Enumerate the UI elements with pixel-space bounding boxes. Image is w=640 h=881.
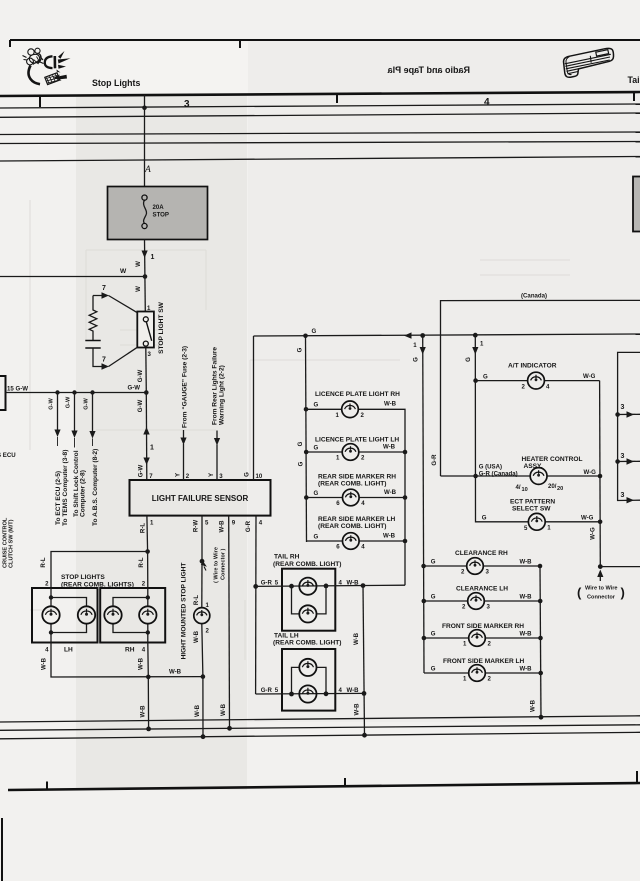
svg-text:HEATER CONTROL: HEATER CONTROL [522,456,583,463]
A/T indicator bulb [528,372,545,389]
svg-text:4: 4 [259,520,263,527]
svg-text:(REAR COMB. LIGHT): (REAR COMB. LIGHT) [318,523,387,530]
heater bulb [530,468,547,485]
node AT drop [473,333,478,338]
licence LH row wires [306,451,405,453]
node W branch [143,274,148,279]
right bus row 1 [618,413,640,415]
node marker LH right [403,539,408,544]
svg-text:G: G [243,472,250,477]
svg-text:20: 20 [557,486,563,492]
svg-text:W-G: W-G [583,373,596,380]
svg-text:W-B: W-B [383,533,396,540]
W-G connector up arrow [597,570,603,578]
W-G bus [599,381,602,567]
bottom tick x345 [344,778,346,786]
node B3 high mount [201,734,206,739]
background tone: header left [10,42,248,93]
W-G stub to edge [600,566,640,568]
ECT bulb [528,513,545,530]
svg-text:7: 7 [102,285,106,292]
switch blade [146,322,151,341]
svg-text:G: G [431,559,436,566]
tail RH inner wiring [292,586,327,614]
svg-text:G: G [314,490,319,497]
rear failure feed arrow [214,438,220,446]
bleed-through ghost marks [30,260,570,660]
dropper wire 1 [57,393,59,430]
stop light switch box [137,312,154,348]
tail RH node left [289,584,294,589]
clearance LH row [424,600,540,602]
RH bulb 1 [104,606,121,623]
node dropper 3 [90,390,94,394]
svg-text:Computer (2-8): Computer (2-8) [80,470,87,517]
node clearance drop [420,333,425,338]
svg-text:4: 4 [361,500,365,507]
node front LH right [538,671,543,676]
svg-text:( Wire to Wire: ( Wire to Wire [214,547,220,583]
svg-text:W-B: W-B [347,579,360,586]
switch contact bottom [143,341,148,346]
RH pin4 wire [147,643,150,729]
svg-text:STOP LIGHTS: STOP LIGHTS [61,574,105,581]
svg-text:3: 3 [184,99,190,110]
right row2 arrow [627,458,635,464]
LH bulb 2 [78,606,95,623]
svg-text:1: 1 [547,524,551,531]
svg-text:To TEMS Computer (3-8): To TEMS Computer (3-8) [62,450,69,526]
pin 4 wire down G-R bus [255,516,257,694]
svg-text:To ECT ECU (2-5): To ECT ECU (2-5) [55,471,62,525]
node clearance RH right [538,564,543,569]
svg-text:Wire to Wire: Wire to Wire [585,586,618,592]
svg-text:4: 4 [484,97,490,108]
frame top border line [10,40,640,48]
icon tail lamp assembly [564,48,614,77]
svg-text:Connector: Connector [587,595,616,601]
svg-text:20A: 20A [153,204,165,211]
svg-text:5: 5 [275,687,279,694]
high mount feed wire [201,561,203,607]
dropper arrow 3 [89,431,95,439]
tail RH node right [324,584,329,589]
svg-text:R-W: R-W [192,520,199,532]
svg-text:W-B: W-B [220,703,227,716]
svg-text:W-B: W-B [41,657,48,670]
svg-text:4/: 4/ [516,484,521,491]
AT row wires [476,380,600,382]
svg-text:S ECU: S ECU [0,452,16,459]
front LH bulb [469,665,486,682]
RH node top [146,595,150,599]
node bus RH [146,675,151,680]
svg-text:(Canada): (Canada) [521,293,547,300]
svg-text:G: G [314,401,319,408]
dropper arrow 1 [54,430,60,438]
front RH row [424,637,541,639]
svg-text:W-B: W-B [520,559,533,566]
svg-text:G: G [314,533,319,540]
svg-text:W-B: W-B [218,520,225,533]
svg-text:G-W: G-W [65,396,71,408]
svg-text:W: W [135,261,142,267]
svg-text:R-L: R-L [40,557,47,567]
svg-text:W-B: W-B [383,443,396,450]
stop lights top link wire [51,552,148,589]
marker LH row wires [307,540,406,542]
clearance drop arrow [420,347,426,355]
fuse 20A STOP symbol [142,195,147,229]
crossing wire L5 [0,132,640,135]
node AT row [473,378,478,383]
svg-text:G-R: G-R [245,520,252,532]
capacitor [85,341,100,349]
svg-text:W-B: W-B [140,705,147,718]
node heater G junction [473,474,478,479]
right fuse box (clipped at edge) [633,177,640,232]
svg-text:10: 10 [256,473,263,480]
tail RH row wire [256,585,405,586]
licence G bus [306,336,307,542]
licence RH bulb [342,401,359,418]
svg-text:STOP: STOP [153,212,169,219]
pin 10 wire from main G bus [253,336,255,480]
svg-text:1: 1 [150,445,154,452]
svg-text:ECT PATTERN: ECT PATTERN [510,498,555,505]
front RH bulb [469,630,486,647]
node marker RH right [403,495,408,500]
node right row2 [615,459,620,464]
tick x634 [633,92,635,101]
rc bottom link [93,347,137,366]
svg-text:G: G [483,373,488,380]
svg-text:HIGHT MOUNTED STOP LIGHT: HIGHT MOUNTED STOP LIGHT [180,563,187,660]
svg-text:Y: Y [208,473,215,477]
svg-text:W: W [135,286,142,292]
svg-text:G: G [297,441,304,446]
tail LH bulb top [299,659,316,676]
svg-text:G: G [431,594,436,601]
LH node top [49,595,53,599]
svg-text:7: 7 [102,357,106,364]
connector arrow down [143,458,149,466]
svg-text:9: 9 [232,520,236,527]
node licence LH left [304,450,309,455]
svg-text:LH: LH [64,647,73,654]
svg-text:From “GAUGE” Fuse (2-3): From “GAUGE” Fuse (2-3) [181,346,188,428]
rear failure feed wire to pin 3 [216,431,218,481]
front LH row [424,672,541,674]
gauge feed arrow [180,438,186,446]
node heater W-G [598,474,603,479]
svg-text:Tail: Tail [628,75,640,85]
wire to wire connector node on pin5 [200,559,205,564]
tail LH node left [289,692,294,697]
node B2 stop lights [146,727,151,732]
main G arrow left [404,332,412,338]
node licence RH left [304,407,309,412]
svg-text:G-R (Canada): G-R (Canada) [479,470,518,477]
node dropper 2 [72,390,76,394]
marker LH bulb [343,533,360,550]
svg-text:(REAR COMB. LIGHT): (REAR COMB. LIGHT) [273,561,342,568]
resistor [89,296,97,341]
svg-text:W-B: W-B [520,594,533,601]
ECT row wire [483,521,600,523]
bottom tick x637 [636,771,638,783]
wire fuse to switch [144,240,147,312]
svg-text:REAR SIDE MARKER RH: REAR SIDE MARKER RH [318,473,396,480]
icon stop light bulb cartoon [23,48,71,84]
svg-text:FRONT SIDE MARKER LH: FRONT SIDE MARKER LH [443,658,525,665]
svg-text:W-B: W-B [193,630,200,643]
dropper leader lines [58,437,93,448]
fuse box STOP [108,187,208,240]
wire to wire connector arrow [204,567,206,571]
bottom thick border line [8,783,640,790]
svg-text:REAR SIDE MARKER LH: REAR SIDE MARKER LH [318,516,396,523]
clearance RH bulb [467,558,484,575]
node front RH right [538,636,543,641]
svg-text:2: 2 [186,473,190,480]
bleed-through ghost lines [30,200,540,720]
svg-text:7: 7 [149,473,153,480]
heater row wire [441,475,601,477]
svg-text:G-R: G-R [261,579,273,586]
rc network top link [93,296,137,313]
crossing wire L4 [0,113,640,117]
svg-text:G: G [431,631,436,638]
right edge bus [618,352,640,500]
clearance RH row [424,565,540,567]
RH inner wiring [113,588,148,643]
LH inner wiring [51,588,87,643]
high mount wire down [202,624,203,737]
svg-text:1: 1 [151,254,155,261]
svg-text:6: 6 [336,544,340,551]
clearance LH bulb [468,593,485,610]
connector arrow up [143,427,149,435]
rc arrow bottom [102,363,110,369]
svg-text:W-B: W-B [529,699,536,712]
svg-text:CLUTCH SW (M/T): CLUTCH SW (M/T) [9,519,15,568]
right row3 arrow [627,497,635,503]
svg-text:G: G [312,328,317,335]
svg-text:To A.B.S. Computer (8-2): To A.B.S. Computer (8-2) [92,449,99,526]
node B3 tail bus [362,733,367,738]
svg-text:G: G [413,357,420,362]
wire fuse feed [144,95,146,187]
svg-text:20/: 20/ [548,483,557,490]
svg-text:STOP LIGHT SW: STOP LIGHT SW [158,301,165,354]
RH node bottom [146,630,150,634]
dropper wire 3 [92,393,94,432]
tail LH bulb bottom [299,685,316,702]
svg-text:W-B: W-B [520,631,533,638]
frame second border line with ticks [0,92,640,96]
pin 5 wire down [201,516,203,561]
svg-text:W-B: W-B [384,489,397,496]
svg-text:G: G [314,444,319,451]
node G-W bus main [144,390,149,395]
clearance G bus [423,336,424,674]
svg-text:3: 3 [621,404,625,411]
licence RH row wires [306,409,405,585]
node right row1 [615,412,620,417]
svg-text:G-W: G-W [137,464,144,477]
node B2 sensor pin9 [227,726,232,731]
ground rail B1 [0,716,640,722]
ground rail B2 [0,725,640,731]
svg-text:FRONT SIDE MARKER RH: FRONT SIDE MARKER RH [442,623,524,630]
svg-text:4: 4 [361,544,365,551]
svg-text:R-L: R-L [140,523,147,533]
tail RH bulb top [299,578,316,595]
stop lights ground bus [51,643,203,678]
tick x337 [336,94,338,103]
svg-text:From Rear Lights Failure: From Rear Lights Failure [212,347,219,425]
node stop link [145,549,150,554]
svg-text:Y: Y [175,473,182,477]
crossing wire L3 [0,104,640,108]
ground rail B3 [0,732,640,739]
svg-text:3: 3 [219,473,223,480]
svg-text:TAIL RH: TAIL RH [274,554,300,561]
AT drop arrow [472,347,478,355]
page edge vertical bottom-left [1,818,3,881]
stop light LH box [32,588,98,643]
dropper arrow 2 [71,431,77,439]
background tone: right area [248,40,640,722]
clearance W-B bus [540,566,541,717]
left connector box pin 15 [0,376,6,410]
Canada wire [441,300,640,476]
svg-text:W-B: W-B [169,669,182,676]
marker RH bulb [343,489,360,506]
node on wire L3 [142,106,147,111]
svg-text:W-B: W-B [194,704,201,717]
svg-text:R-L: R-L [193,595,200,605]
tail LH box [282,649,335,711]
node front RH left [422,636,427,641]
svg-text:W: W [120,268,127,275]
svg-text:W-B: W-B [353,703,360,716]
pin 9 wire down full [228,516,231,729]
svg-text:G: G [297,461,304,466]
svg-text:TAIL LH: TAIL LH [274,632,299,639]
licence LH bulb [342,444,359,461]
RH bulb 2 [139,606,156,623]
svg-text:CLEARANCE LH: CLEARANCE LH [456,586,508,593]
node clearance LH left [422,599,427,604]
tail LH row wire [256,692,364,695]
G-W bus wire [6,392,147,394]
gauge feed wire to pin 2 [183,430,185,480]
svg-text:W-B: W-B [353,632,360,645]
right row1 arrow [627,411,635,417]
crossing wire L7 [0,157,640,162]
AT G bus [475,335,483,522]
svg-text:W-B: W-B [384,401,397,408]
node dropper 1 [55,390,59,394]
node W-G connector [598,564,603,569]
svg-text:G: G [482,514,487,521]
node licence LH right [403,450,408,455]
svg-text:W-G: W-G [581,514,594,521]
svg-text:10: 10 [522,487,528,493]
svg-text:(: ( [577,585,582,600]
svg-text:G: G [465,357,472,362]
tail W-B bus [363,586,365,736]
stop light RH box [100,588,165,643]
marker RH row wires [306,497,405,499]
svg-text:G-R: G-R [431,454,438,466]
svg-text:Stop Lights: Stop Lights [92,78,140,88]
svg-text:G-W: G-W [128,385,141,392]
tail RH box [282,569,335,631]
right bus row 2 [618,460,640,462]
node bus high mount [201,674,206,679]
high mounted stop light bulb [194,608,210,624]
svg-text:G-W: G-W [137,369,144,382]
svg-text:Connector ): Connector ) [221,548,227,580]
W branch wire [0,276,145,278]
svg-text:): ) [621,585,625,600]
svg-text:W-G: W-G [584,469,597,476]
svg-text:6: 6 [336,500,340,507]
main wire bus to sensor [145,393,148,481]
bottom tick x47 [46,782,48,790]
background tone: scanned gray band [76,95,247,790]
tick x40 [39,96,41,107]
svg-text:G: G [296,347,303,352]
svg-text:CLEARANCE RH: CLEARANCE RH [455,550,508,557]
pin 1 wire down [146,516,149,552]
LH bulb 1 [42,606,59,623]
tail LH inner wiring [292,667,327,694]
node clearance RH left [421,564,426,569]
rc arrow top [102,292,110,298]
svg-text:(REAR COMB. LIGHT): (REAR COMB. LIGHT) [318,481,387,488]
main G feed wire [254,334,640,336]
crossing wire L6 [0,142,640,144]
svg-text:SELECT SW: SELECT SW [512,506,551,513]
node marker RH left [304,495,309,500]
svg-text:3: 3 [621,492,625,499]
svg-text:5: 5 [275,579,279,586]
svg-text:LICENCE PLATE LIGHT RH: LICENCE PLATE LIGHT RH [315,391,400,398]
svg-text:G-W: G-W [137,399,144,412]
svg-text:(REAR COMB. LIGHT): (REAR COMB. LIGHT) [273,640,342,647]
svg-text:Radio and Tape Pla: Radio and Tape Pla [387,65,470,75]
svg-text:G: G [431,666,436,673]
svg-text:R-L: R-L [138,557,145,567]
light failure sensor box [130,480,271,516]
node G-R bus tail RH [253,584,258,589]
svg-text:W-G: W-G [589,527,596,540]
svg-text:G-W: G-W [83,398,89,410]
arrow down on wire [142,251,148,259]
tail LH node W-B bus [362,691,367,696]
switch contact top [143,317,148,322]
tail RH bulb bottom [299,605,316,622]
svg-text:G-R: G-R [261,687,273,694]
tail LH node right [324,691,329,696]
svg-text:LIGHT FAILURE SENSOR: LIGHT FAILURE SENSOR [152,494,249,503]
node ECT W-G [598,520,603,525]
node clearance LH right [538,599,543,604]
